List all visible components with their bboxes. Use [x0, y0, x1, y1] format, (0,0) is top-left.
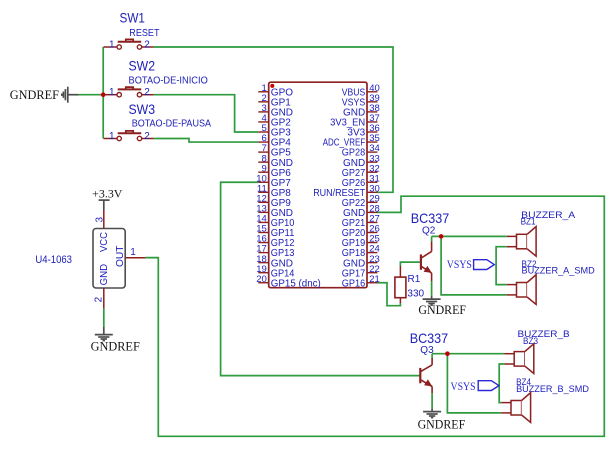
wire: U4 pin2 to GNDREF: [103, 309, 105, 327]
svg-text:BOTAO-DE-PAUSA: BOTAO-DE-PAUSA: [132, 119, 212, 130]
junction: GNDREF/SW2: [101, 92, 106, 97]
svg-text:Q3: Q3: [420, 345, 434, 356]
resistor R1 top pin: [399, 266, 401, 277]
regulator U4 pin 1 (OUT) stub: [125, 257, 145, 259]
IC pin 21 (GP16): [367, 282, 377, 284]
svg-text:U4-1063: U4-1063: [35, 254, 72, 266]
IC pin 11 (GP8): [258, 191, 268, 193]
svg-text:GND: GND: [98, 264, 110, 286]
svg-text:GNDREF: GNDREF: [91, 339, 140, 353]
svg-text:RESET: RESET: [129, 27, 160, 39]
IC pin 10 (GP7): [258, 181, 268, 183]
svg-text:1: 1: [109, 87, 115, 98]
transistor Q3 (NPN): [420, 358, 432, 393]
IC pin 3 (GND): [258, 111, 268, 113]
ground stem U4: [103, 327, 105, 335]
svg-text:3: 3: [94, 217, 105, 223]
IC pin 38 (GND): [367, 111, 377, 113]
transistor Q2 emitter arrow: [424, 266, 432, 273]
switch SW1 (push button): [104, 39, 154, 49]
svg-text:2: 2: [93, 296, 104, 302]
svg-text:VSYS: VSYS: [451, 381, 476, 393]
ground GNDREF (below Q2): [423, 299, 441, 305]
wire: SW1 pin2 to RUN/RESET pin30: [154, 47, 393, 192]
svg-text:SW3: SW3: [129, 101, 156, 117]
svg-text:BUZZER_B_SMD: BUZZER_B_SMD: [516, 384, 589, 395]
svg-text:GNDREF: GNDREF: [418, 303, 466, 317]
wire: GP7 pin10 to Q3 base: [221, 182, 420, 375]
IC pin 29 (GP22): [367, 201, 377, 203]
svg-text:21: 21: [369, 274, 380, 285]
IC pin 18 (GND): [258, 262, 268, 264]
IC pin 17 (GP13): [258, 252, 268, 254]
buzzer BZ4: [501, 393, 530, 423]
wire: GND pin28 loop to U4 OUT: [145, 196, 604, 436]
svg-text:GNDREF: GNDREF: [10, 88, 59, 102]
IC pin 35 (ADC_VREF): [367, 141, 377, 143]
IC pin 4 (GP2): [258, 121, 268, 123]
wire: R1 top to Q2 base: [400, 262, 419, 266]
IC pin 13 (GND): [258, 211, 268, 213]
IC pin 31 (GP26): [367, 181, 377, 183]
svg-text:OUT: OUT: [114, 245, 126, 267]
wire: Q3 collector to BZ3 pin1: [432, 353, 504, 355]
svg-text:1: 1: [109, 131, 115, 142]
IC pin 19 (GP14): [258, 272, 268, 274]
svg-text:SW2: SW2: [129, 58, 156, 74]
svg-text:BZ3: BZ3: [523, 336, 538, 347]
wire: BZ3 pin2 to BZ4 pin1 (VSYS): [499, 364, 504, 403]
ground GNDREF (left of switches): [62, 87, 79, 103]
IC pin 1 (GPO): [258, 91, 268, 93]
regulator U4 pin 2 stub: [103, 288, 105, 309]
wire: Q2 collector up: [431, 236, 433, 241]
buzzer BZ1: [507, 227, 536, 257]
svg-text:GNDREF: GNDREF: [418, 417, 466, 431]
svg-text:GP15 (dnc): GP15 (dnc): [271, 278, 321, 289]
svg-text:BZ1: BZ1: [521, 217, 536, 228]
transistor Q3 emitter arrow: [424, 379, 432, 386]
IC pin 1 indicator dot: [270, 84, 274, 88]
IC pin 22 (GP17): [367, 272, 377, 274]
IC pin 28 (GND): [367, 211, 377, 213]
svg-text:R1: R1: [408, 274, 421, 285]
IC pin 26 (GP20): [367, 232, 377, 234]
svg-text:Q2: Q2: [422, 226, 436, 237]
wire: U4 OUT stub join: [145, 257, 158, 259]
IC pin 30 (RUN/RESET): [367, 191, 377, 193]
IC pin 39 (VSYS): [367, 101, 377, 103]
wire: junction down to BZ4 pin2: [447, 354, 501, 413]
wire: GP16 pin21 to R1 bottom: [377, 283, 401, 306]
ground stem Q3: [431, 408, 433, 411]
resistor R1 body: [395, 277, 406, 298]
svg-text:SW1: SW1: [120, 9, 146, 25]
wire: SW2 pin2 to GP3 pin5: [154, 95, 259, 132]
wire: SW3 pin2 to GP4 pin6: [154, 139, 259, 143]
svg-text:2: 2: [144, 87, 150, 98]
ground stem Q2: [431, 296, 433, 299]
regulator U4 pin 3 stub: [103, 210, 105, 229]
svg-text:BUZZER_A_SMD: BUZZER_A_SMD: [522, 265, 595, 276]
IC pin 12 (GP9): [258, 201, 268, 203]
IC pin 20 (GP15 (dnc)): [258, 282, 268, 284]
IC pin 34 (GP28): [367, 151, 377, 153]
buzzer BZ3: [504, 344, 533, 374]
svg-text:VCC: VCC: [98, 232, 110, 252]
svg-text:BC337: BC337: [410, 330, 449, 346]
IC pin 23 (GND): [367, 262, 377, 264]
wire: Q2 collector to BZ1 pin1: [432, 235, 507, 237]
IC pin 37 (3V3_EN): [367, 121, 377, 123]
power +3.3V symbol: [99, 200, 110, 210]
svg-text:1: 1: [109, 39, 115, 50]
svg-text:GP16: GP16: [342, 278, 366, 289]
wire: Q3 emitter to ground: [431, 393, 433, 408]
IC pin 2 (GP1): [258, 101, 268, 103]
IC pin 32 (GP27): [367, 171, 377, 173]
wire: GNDREF to junction: [79, 94, 104, 96]
switch SW3 (push button): [104, 131, 154, 141]
IC pin 27 (GP21): [367, 221, 377, 223]
regulator U4-1063 body: [93, 229, 125, 289]
IC pin 36 (3V3): [367, 131, 377, 133]
junction: Q3 collector net: [445, 351, 450, 356]
switch SW2 (push button): [104, 87, 154, 97]
IC U1 Pico body: [269, 82, 367, 288]
svg-text:2: 2: [144, 39, 150, 50]
svg-text:VSYS: VSYS: [447, 259, 472, 271]
transistor Q2 (NPN): [421, 242, 432, 282]
IC pin 7 (GP5): [258, 151, 268, 153]
ground GNDREF (below Q3): [423, 412, 441, 418]
svg-text:+3.3V: +3.3V: [92, 188, 123, 200]
IC pin 6 (GP4): [258, 141, 268, 143]
svg-text:2: 2: [144, 131, 150, 142]
ground GNDREF (below U4): [95, 335, 113, 341]
wire: Q2 emitter to ground: [431, 281, 433, 296]
wire: junction down to BZ2 pin2: [441, 236, 507, 295]
IC pin 14 (GP10): [258, 221, 268, 223]
IC pin 25 (GP19): [367, 242, 377, 244]
resistor R1 bottom pin: [399, 298, 401, 303]
IC pin 8 (GND): [258, 161, 268, 163]
svg-text:BOTAO-DE-INICIO: BOTAO-DE-INICIO: [129, 75, 209, 86]
svg-text:BC337: BC337: [411, 210, 450, 226]
wire: BZ1 pin2 to BZ2 pin1 (VSYS): [496, 247, 507, 285]
IC pin 33 (GND): [367, 161, 377, 163]
IC pin 16 (GP12): [258, 242, 268, 244]
IC pin 15 (GP11): [258, 232, 268, 234]
svg-text:330: 330: [407, 289, 424, 300]
wire: switches common vertical: [102, 47, 104, 139]
IC pin 24 (GP18): [367, 252, 377, 254]
IC pin 5 (GP3): [258, 131, 268, 133]
IC pin 9 (GP6): [258, 171, 268, 173]
wire: Q3 collector up: [431, 354, 433, 358]
junction: Q2 collector net: [439, 234, 444, 239]
svg-text:1: 1: [130, 247, 136, 258]
buzzer BZ2: [507, 275, 536, 305]
svg-text:20: 20: [256, 274, 267, 285]
IC pin 40 (VBUS): [367, 91, 377, 93]
